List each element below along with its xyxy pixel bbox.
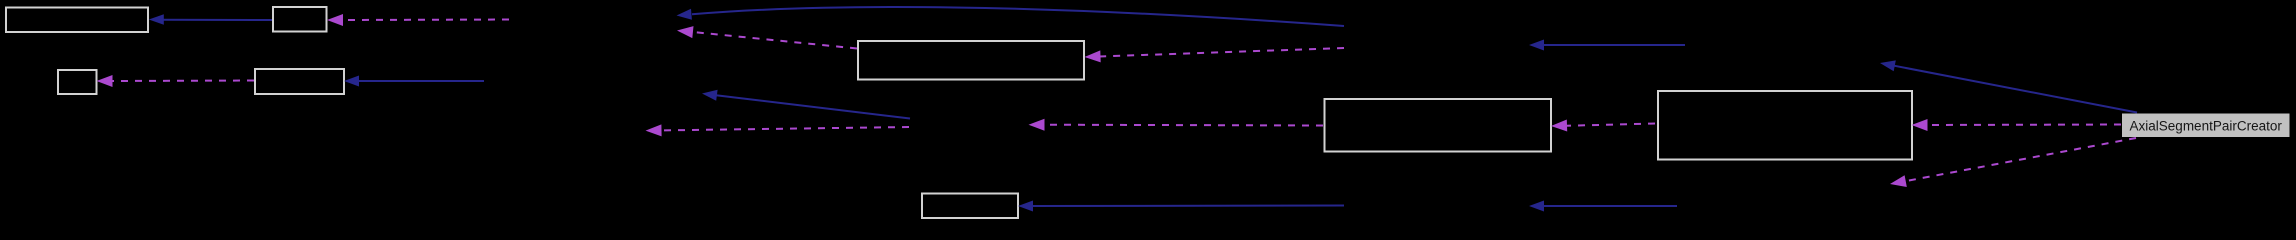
node box F (center right class box) <box>1325 99 1552 152</box>
inheritance edge top right horizontal (solid blue arrow) <box>1529 40 1685 51</box>
inheritance edge bottom right horizontal (solid blue arrow) <box>1529 201 1677 212</box>
node box E (center upper class box) <box>858 41 1084 80</box>
node AxialSegmentPairCreator (current node, gray filled) <box>2122 114 2290 138</box>
node box B (small class box top) <box>273 7 327 32</box>
usage edge to B (dashed magenta arrow) <box>327 14 509 26</box>
usage edge AxialSegmentPairCreator diagonal down-left (dashed magenta arrow) <box>1890 138 2136 187</box>
inheritance edge to D (solid blue arrow) <box>344 76 484 87</box>
inheritance edge diagonal center (solid blue arrow) <box>702 90 910 119</box>
usage edge center-left horizontal (dashed magenta arrow) <box>646 124 910 136</box>
inheritance edge long curve to left (solid blue spline) <box>677 7 1345 26</box>
node box D (class box, second row) <box>255 69 344 94</box>
node box H (bottom center class box) <box>922 194 1018 219</box>
usage edge from F to left (dashed magenta arrow) <box>1029 119 1324 131</box>
inheritance edge bottom to H (solid blue arrow) <box>1018 201 1344 212</box>
inheritance edge from AxialSegmentPairCreator diagonal (solid blue arrow) <box>1880 60 2137 112</box>
node box A (top-left wide class box, label invisible) <box>6 8 148 33</box>
usage edge G to F (dashed magenta arrow) <box>1551 120 1655 132</box>
usage edge AxialSegmentPairCreator to G (dashed magenta arrow) <box>1912 119 2122 131</box>
node box C (small class box, second row left) <box>58 70 97 94</box>
usage edge D to C (dashed magenta arrow) <box>97 75 255 87</box>
node box G (right tall class box) <box>1658 91 1912 160</box>
svg-text:AxialSegmentPairCreator: AxialSegmentPairCreator <box>2130 119 2283 134</box>
usage edge to E right (dashed magenta arrow) <box>1085 48 1345 62</box>
inheritance edge B to A (solid blue arrow) <box>149 14 272 24</box>
usage edge from E up-left (dashed magenta arrow) <box>677 26 857 48</box>
